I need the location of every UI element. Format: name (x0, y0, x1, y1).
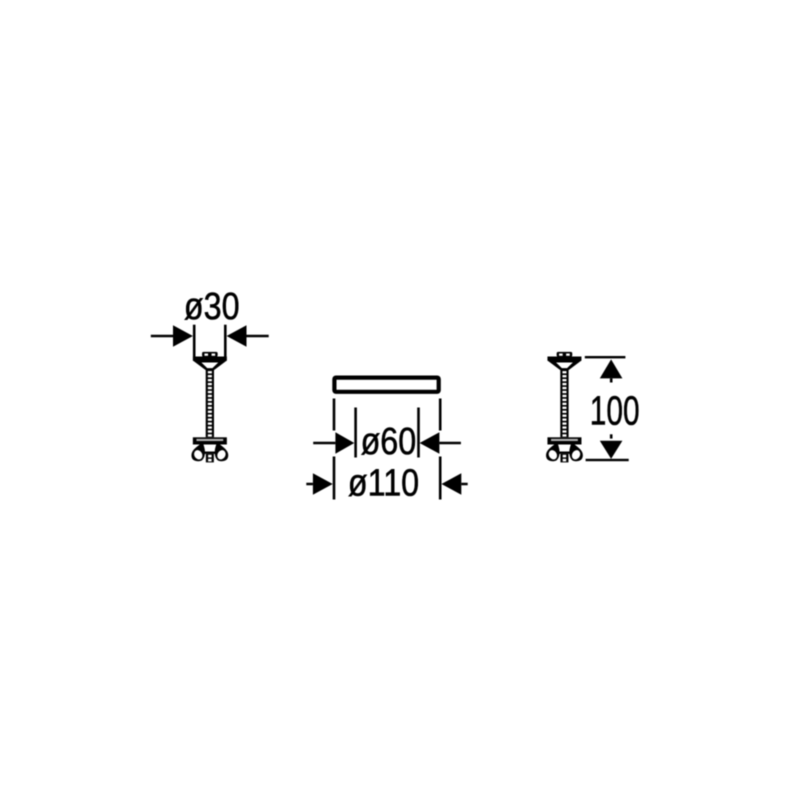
svg-text:ø60: ø60 (361, 421, 417, 463)
svg-text:ø110: ø110 (348, 462, 419, 504)
svg-text:ø30: ø30 (184, 286, 240, 328)
svg-text:100: 100 (590, 388, 640, 434)
